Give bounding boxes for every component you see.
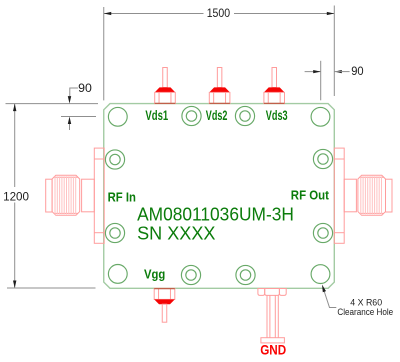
dimension 1200 line (14, 104, 16, 288)
svg-text:Vgg: Vgg (144, 266, 165, 281)
flange (334, 148, 344, 243)
dimension 90 right line left part (305, 71, 321, 73)
svg-text:Clearance Hole: Clearance Hole (337, 306, 393, 317)
knurled nut body (358, 175, 386, 215)
end cap (386, 179, 393, 212)
svg-text:AM08011036UM-3H: AM08011036UM-3H (137, 203, 294, 224)
flange (94, 148, 104, 243)
screw hole left top (105, 150, 124, 169)
feedthrough pin Vgg bottom (154, 288, 175, 322)
feedthrough pin Vds1 (155, 68, 176, 104)
screw hole top 2 (235, 106, 254, 125)
svg-text:90: 90 (351, 65, 364, 78)
neck (82, 179, 95, 212)
RF In connector (left SMA) (46, 148, 105, 243)
nut facet left (258, 289, 265, 296)
dimension 90 right arrow left (334, 70, 342, 73)
dimension 1500 line (104, 13, 335, 15)
feedthrough pin Vds3 (264, 68, 285, 104)
stem tube (266, 295, 268, 337)
knurled nut body (52, 175, 80, 215)
GND connector (bottom) (258, 289, 286, 343)
svg-text:SN XXXX: SN XXXX (137, 222, 215, 243)
end cap (46, 179, 52, 212)
dimension 1200 arrow up (13, 104, 16, 112)
dimension 90 left arrow up (68, 117, 71, 125)
corner clearance hole bottom-right (311, 265, 330, 284)
bottom cap (261, 338, 285, 343)
screw hole bottom 1 (181, 265, 200, 284)
dimension 90 left extension line top (6, 103, 99, 105)
dimension 1500 arrow right (327, 12, 335, 15)
dimension 1500 extension line left (103, 7, 105, 100)
svg-text:Vds3: Vds3 (266, 107, 288, 123)
svg-text:Vds1: Vds1 (145, 107, 168, 123)
svg-text:Vds2: Vds2 (206, 107, 228, 123)
dimension 1500 extension line right (333, 6, 335, 97)
svg-text:GND: GND (260, 342, 286, 358)
dimension 90 left leader (70, 88, 78, 96)
RF Out connector (right SMA) (334, 148, 392, 243)
nut facet right (279, 289, 286, 296)
dimension 90 right arrow right (313, 70, 321, 73)
nut facet middle (265, 289, 280, 296)
corner clearance hole top-left (108, 107, 127, 126)
corner clearance hole top-right (311, 107, 330, 126)
feedthrough pin Vds2 (209, 68, 230, 104)
svg-text:RF In: RF In (108, 189, 136, 204)
clearance hole leader line (324, 291, 336, 308)
clearance hole leader arrow (322, 285, 326, 293)
screw hole left bottom (105, 223, 124, 242)
dimension 90 left extension line bottom (61, 116, 96, 118)
module chassis outline (104, 104, 335, 289)
dimension 1200 arrow down (13, 281, 16, 289)
screw hole right bottom (313, 223, 332, 242)
dimension 1500 arrow left (104, 12, 112, 15)
corner clearance hole bottom-left (108, 265, 127, 284)
svg-text:90: 90 (78, 82, 92, 95)
dimension 90 left arrow down (68, 96, 71, 104)
svg-text:1200: 1200 (3, 191, 29, 204)
screw hole top 1 (182, 106, 201, 125)
neck (344, 179, 356, 212)
screw hole bottom 2 (236, 265, 255, 284)
svg-text:1500: 1500 (207, 7, 231, 20)
dimension 1200 extension line bottom (7, 287, 96, 289)
screw hole right top (313, 149, 332, 168)
dimension 90 right extension line inner (320, 61, 322, 101)
dimension 90 right line right part (334, 71, 349, 73)
dimension 90 left shaft below (69, 124, 71, 130)
svg-text:RF Out: RF Out (291, 188, 330, 203)
